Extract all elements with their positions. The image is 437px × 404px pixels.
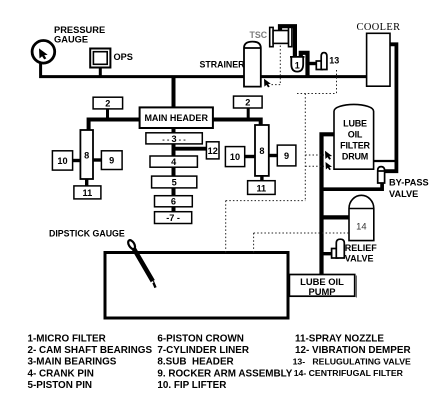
svg-text:COOLER: COOLER <box>357 22 401 33</box>
svg-text:12- VIBRATION DEMPER: 12- VIBRATION DEMPER <box>295 345 411 356</box>
TSC cooler pipe <box>280 26 295 57</box>
legend column 1 <box>28 334 153 391</box>
wire box8L to box11L <box>85 179 88 186</box>
dipstick gauge needle <box>127 239 156 288</box>
wire feeder to main header <box>172 77 176 109</box>
sub header box 8 left <box>80 130 93 179</box>
centrifugal filter 14 vessel <box>349 195 374 240</box>
svg-text:9. ROCKER ARM ASSEMBLY: 9. ROCKER ARM ASSEMBLY <box>157 368 292 379</box>
wire box8L to box10L <box>73 159 81 162</box>
wire stub to centrifugal filter 14 <box>323 215 350 219</box>
lube oil filter drum <box>334 104 374 169</box>
actuator cursor drum upper <box>325 151 332 160</box>
wire box6 to box7 <box>172 207 176 212</box>
svg-text:8: 8 <box>84 151 89 161</box>
regulating valve 13 body <box>321 53 327 70</box>
relief valve foot <box>332 249 338 259</box>
OPS switch outer box <box>90 49 110 68</box>
wire stub to regulating valve 13 <box>310 62 318 65</box>
by-pass valve <box>378 167 385 183</box>
svg-text:12: 12 <box>208 146 218 156</box>
svg-text:13- RELUGULATING VALVE: 13- RELUGULATING VALVE <box>293 356 411 366</box>
sensing line bottom horizontal <box>226 200 306 202</box>
wire box8R to box11R <box>260 176 263 181</box>
sub header box 8 right <box>255 125 269 176</box>
main header box <box>140 107 213 128</box>
svg-text:2: 2 <box>105 99 110 109</box>
wire branch to vibration damper 12 <box>172 147 206 151</box>
cylinder liner box 7 <box>155 212 192 224</box>
svg-text:14- CENTRIFUGAL FILTER: 14- CENTRIFUGAL FILTER <box>294 368 404 378</box>
svg-text:11: 11 <box>256 184 266 194</box>
cam shaft bearings box 2 left <box>93 97 123 109</box>
rocker arm box 9 left <box>101 151 122 170</box>
micro filter pot outlet pipe <box>301 53 308 76</box>
svg-text:11: 11 <box>83 188 93 198</box>
svg-text:5: 5 <box>172 177 177 187</box>
svg-text:9: 9 <box>284 151 289 161</box>
pressure gauge needle cursor <box>39 48 48 59</box>
wire box4 to box5 <box>172 167 176 176</box>
svg-text:7-CYLINDER LINER: 7-CYLINDER LINER <box>157 345 249 356</box>
lube oil pump <box>289 275 354 297</box>
cam shaft bearings box 2 right <box>234 96 263 108</box>
wire stem box 2 left <box>106 109 109 120</box>
svg-text:VALVE: VALVE <box>389 189 418 199</box>
vibration damper box 12 <box>206 142 219 159</box>
wire box8L to box9L <box>93 158 101 161</box>
svg-text:10. FIP LIFTER: 10. FIP LIFTER <box>157 380 226 391</box>
sensing line central drop <box>304 94 306 201</box>
svg-text:10: 10 <box>57 156 67 166</box>
svg-text:9: 9 <box>109 156 114 166</box>
svg-text:4: 4 <box>171 157 177 167</box>
svg-text:DIPSTICK GAUGE: DIPSTICK GAUGE <box>49 229 125 239</box>
cooler <box>367 33 390 86</box>
piston pin box 5 <box>152 176 197 188</box>
spray nozzle box 11 right <box>248 181 276 195</box>
svg-text:DRUM: DRUM <box>342 152 368 162</box>
svg-text:PUMP: PUMP <box>308 286 335 297</box>
svg-text:4- CRANK PIN: 4- CRANK PIN <box>28 368 94 379</box>
fip lifter box 10 right <box>225 147 244 167</box>
svg-text:LUBE: LUBE <box>343 119 367 129</box>
pressure gauge <box>32 41 55 64</box>
sensing line to strainer cursor <box>272 84 281 86</box>
sensing line drop to sump left <box>225 201 227 253</box>
svg-text:11-SPRAY NOZZLE: 11-SPRAY NOZZLE <box>295 334 384 345</box>
spray nozzle box 11 left <box>74 186 101 199</box>
svg-text:FILTER: FILTER <box>340 141 370 151</box>
wire by-pass valve lower line <box>322 183 383 189</box>
sensing line below valve 13 <box>336 70 338 94</box>
svg-text:8: 8 <box>259 146 264 156</box>
svg-text:1: 1 <box>295 61 300 71</box>
sensing line TSC drop <box>279 46 281 85</box>
wire box3 to box4 <box>172 144 176 156</box>
svg-text:2- CAM SHAFT BEARINGS: 2- CAM SHAFT BEARINGS <box>28 345 153 356</box>
rocker arm box 9 right <box>277 145 296 166</box>
wire header to box 3 <box>172 128 176 133</box>
wire stem box 2 right <box>247 108 250 120</box>
crank pin box 4 <box>150 156 197 167</box>
wire right sub-header branch <box>212 120 261 127</box>
svg-text:1-MICRO FILTER: 1-MICRO FILTER <box>28 334 106 345</box>
svg-text:OIL: OIL <box>348 130 363 140</box>
sensing line horizontal below main line <box>297 93 337 95</box>
svg-text:6: 6 <box>171 197 176 207</box>
lube oil pump shadow line <box>355 276 357 298</box>
TSC device left flange <box>270 27 273 46</box>
wire OPS stem <box>99 68 102 76</box>
wire stub to relief valve <box>323 252 333 255</box>
regulating valve 13 foot <box>316 61 322 70</box>
svg-text:TSC: TSC <box>250 30 268 40</box>
svg-text:5-PISTON PIN: 5-PISTON PIN <box>28 380 93 391</box>
OPS switch inner box <box>93 52 107 65</box>
svg-text:VALVE: VALVE <box>345 254 374 264</box>
wire cooler outlet down to drum level <box>384 44 397 171</box>
svg-text:- - 3 - -: - - 3 - - <box>162 134 186 144</box>
svg-text:14: 14 <box>356 221 366 232</box>
sensing line sump to vessel 14 <box>254 232 349 234</box>
sensing line drop to sump right <box>253 233 255 253</box>
strainer vessel <box>244 42 261 87</box>
svg-text:10: 10 <box>230 152 240 162</box>
svg-text:8.SUB HEADER: 8.SUB HEADER <box>157 357 233 368</box>
legend column 2 <box>157 334 292 391</box>
svg-text:-7 -: -7 - <box>166 213 180 223</box>
sensing line to drum cursor upper <box>305 154 324 156</box>
piston crown box 6 <box>155 196 193 207</box>
TSC device right flange <box>289 27 292 46</box>
svg-text:3-MAIN BEARINGS: 3-MAIN BEARINGS <box>28 357 117 368</box>
main bearings box 3 <box>146 133 202 144</box>
svg-text:STRAINER: STRAINER <box>200 60 246 70</box>
wire drum feed line down to pump <box>322 134 335 274</box>
wire main supply line <box>41 63 367 77</box>
svg-text:6-PISTON CROWN: 6-PISTON CROWN <box>157 334 244 345</box>
svg-text:13: 13 <box>329 55 339 65</box>
svg-text:MAIN HEADER: MAIN HEADER <box>144 113 208 123</box>
wire box8R to box9R <box>269 154 278 157</box>
TSC device body <box>273 31 288 44</box>
relief valve body <box>336 239 344 258</box>
actuator cursor drum lower <box>326 162 332 170</box>
svg-text:2: 2 <box>245 98 250 108</box>
sump tank <box>105 253 288 319</box>
fip lifter box 10 left <box>52 151 72 170</box>
legend column 3 <box>293 334 411 378</box>
wire box5 to box6 <box>172 188 176 196</box>
svg-text:OPS: OPS <box>114 52 133 62</box>
svg-text:RELIEF: RELIEF <box>345 243 378 253</box>
svg-text:BY-PASS: BY-PASS <box>389 178 429 188</box>
sensing line to drum cursor lower <box>305 165 324 167</box>
wire box8R to box10R <box>245 155 255 158</box>
svg-text:GAUGE: GAUGE <box>54 34 88 44</box>
svg-text:PRESSURE: PRESSURE <box>54 25 105 35</box>
wire drum to cooler downpipe <box>374 160 395 162</box>
actuator cursor at strainer <box>264 79 271 88</box>
wire left sub-header branch <box>89 120 141 132</box>
micro filter pot U1 <box>290 57 305 72</box>
